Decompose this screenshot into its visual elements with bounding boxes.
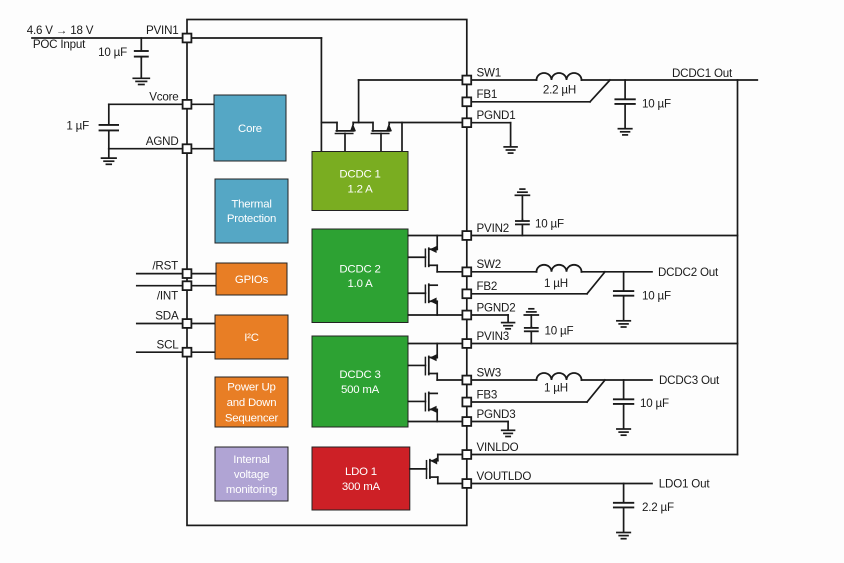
ground for C_ldo [617, 533, 630, 539]
svg-text:FB1: FB1 [477, 88, 498, 101]
wire PGND1 [471, 123, 511, 147]
wire SCL [137, 351, 215, 353]
wire SW1 out [471, 79, 537, 81]
svg-text:FB2: FB2 [477, 280, 498, 293]
wire PGND2 external [471, 315, 508, 322]
ground PGND3 [502, 430, 515, 436]
label L3 value [544, 382, 568, 395]
label /INT [157, 289, 178, 302]
label SW3 [477, 366, 502, 379]
wire PVIN2 to FET [436, 236, 438, 250]
wire DCDC2 out [582, 271, 653, 273]
pin PGND1 [462, 118, 471, 127]
svg-text:SW1: SW1 [477, 66, 502, 79]
wire SW2 out [471, 271, 537, 273]
svg-text:SCL: SCL [157, 339, 180, 352]
pin SW3 [462, 376, 471, 385]
svg-text:Power Up: Power Up [227, 382, 275, 394]
label FB1 [477, 88, 498, 101]
block DCDC 1 [312, 152, 408, 211]
ground for C_vcore [102, 149, 117, 165]
svg-text:AGND: AGND [146, 135, 179, 148]
wire VINLDO internal [438, 454, 464, 456]
wire PVIN1 input [32, 37, 321, 39]
label FB3 [477, 388, 498, 401]
ground for C_pvin2 (inverted) [515, 189, 529, 220]
transistor Q6 low-side DCDC3 [408, 392, 437, 412]
capacitor C_vcore 1 uF [100, 104, 119, 148]
label VOUTLDO [477, 470, 532, 483]
svg-text:10 µF: 10 µF [545, 325, 574, 338]
label VINLDO [477, 441, 519, 454]
wire DCDC1 out [582, 79, 758, 81]
pin AGND [183, 144, 192, 153]
wire PVIN2 external [471, 235, 738, 237]
svg-text:FB3: FB3 [477, 388, 498, 401]
svg-text:10 µF: 10 µF [642, 290, 671, 303]
block I2C [215, 315, 288, 359]
svg-text:2.2 µH: 2.2 µH [543, 84, 576, 97]
svg-text:1 µH: 1 µH [544, 382, 568, 395]
label DCDC2 Out [658, 266, 719, 279]
label C_ldo value [642, 501, 674, 514]
svg-text:PGND3: PGND3 [477, 408, 516, 421]
svg-text:monitoring: monitoring [226, 484, 277, 496]
svg-text:1.2 A: 1.2 A [348, 183, 374, 195]
svg-text:SW3: SW3 [477, 366, 502, 379]
svg-text:1 µF: 1 µF [66, 120, 89, 133]
label PGND2 [477, 301, 516, 314]
capacitor C_out2 10 uF [614, 272, 633, 320]
wire PVIN3 to FET [436, 344, 438, 358]
svg-text:PGND1: PGND1 [477, 109, 516, 122]
svg-text:1 µH: 1 µH [544, 277, 568, 290]
pin VOUTLDO [462, 479, 471, 488]
wire /INT [137, 285, 216, 287]
svg-text:500 mA: 500 mA [341, 384, 380, 396]
svg-text:2.2 µF: 2.2 µF [642, 501, 674, 514]
svg-text:POC Input: POC Input [33, 38, 86, 51]
pin SW1 [462, 76, 471, 85]
label PGND3 [477, 408, 516, 421]
pin PGND3 [462, 417, 471, 426]
label AGND [146, 135, 179, 148]
pin SW2 [462, 267, 471, 276]
wire SW2 node [437, 265, 463, 272]
svg-text:PVIN2: PVIN2 [477, 222, 510, 235]
svg-text:DCDC 1: DCDC 1 [339, 169, 380, 181]
inductor L2 1 uH [537, 265, 582, 272]
label DCDC1 Out [672, 67, 733, 80]
wire PVIN3 external [471, 343, 738, 345]
wire FET to VOUTLDO [437, 477, 439, 483]
capacitor C_in 10 uF [135, 38, 148, 58]
block Thermal Protection [215, 179, 288, 243]
pin FB3 [462, 398, 471, 407]
block Power Up and Down Sequencer [215, 377, 288, 427]
svg-text:GPIOs: GPIOs [235, 274, 269, 286]
ground PGND2 [502, 323, 515, 329]
wire FET to VINLDO [437, 455, 439, 461]
wire PGND3 external [471, 422, 508, 430]
svg-text:PVIN1: PVIN1 [146, 24, 179, 37]
ground for C_in [133, 57, 149, 84]
pin /RST [183, 269, 192, 278]
block LDO 1 [312, 447, 410, 510]
svg-text:DCDC 2: DCDC 2 [339, 263, 380, 275]
input net label [27, 24, 94, 51]
capacitor C_ldo 2.2 uF [614, 484, 633, 532]
pin /INT [183, 281, 192, 290]
pin VINLDO [462, 450, 471, 459]
label SDA [155, 310, 179, 323]
pin PGND2 [462, 311, 471, 320]
transistor Q3 high-side DCDC2 [408, 246, 437, 267]
wire LDO1 out [471, 483, 652, 485]
pin FB1 [462, 97, 471, 106]
svg-text:300 mA: 300 mA [342, 481, 381, 493]
capacitor C_out3 10 uF [614, 380, 633, 428]
label C_in value [98, 46, 127, 59]
label FB2 [477, 280, 498, 293]
svg-text:LDO 1: LDO 1 [345, 466, 377, 478]
label PGND1 [477, 109, 516, 122]
transistor Q2 low-side DCDC1 [371, 123, 392, 152]
wire SW1 node [353, 80, 463, 123]
svg-text:10 µF: 10 µF [640, 397, 669, 410]
svg-text:SW2: SW2 [477, 258, 502, 271]
transistor Q7 LDO pass [410, 458, 438, 479]
svg-text:DCDC2 Out: DCDC2 Out [658, 266, 719, 279]
pin PVIN3 [462, 339, 471, 348]
pin SDA [183, 319, 192, 328]
svg-text:SDA: SDA [155, 310, 179, 323]
wire low-side to PGND1 [389, 122, 463, 124]
svg-text:Protection: Protection [227, 213, 276, 225]
transistor Q1 high-side DCDC1 [335, 123, 356, 152]
pin FB2 [462, 289, 471, 298]
block Internal voltage monitoring [215, 447, 288, 501]
label C_vcore value [66, 120, 89, 133]
svg-text:PVIN3: PVIN3 [477, 330, 510, 343]
svg-text:Vcore: Vcore [149, 91, 178, 104]
svg-text:Core: Core [238, 123, 262, 135]
svg-text:voltage: voltage [234, 469, 269, 481]
ground for C_pvin3 (inverted) [524, 309, 538, 327]
wire FB2 [471, 272, 605, 294]
ground for C_out1 [618, 129, 631, 135]
svg-text:LDO1 Out: LDO1 Out [659, 478, 711, 491]
svg-text:4.6 V → 18 V: 4.6 V → 18 V [27, 24, 94, 37]
svg-text:DCDC1 Out: DCDC1 Out [672, 67, 733, 80]
wire SW3 node [437, 374, 463, 381]
wire AGND [109, 148, 214, 150]
wire /RST [137, 273, 216, 275]
wire junction to DCDC1 block [401, 123, 403, 152]
wire PVIN2 internal [408, 235, 463, 237]
wire PGND2 internal [408, 314, 463, 316]
label PVIN1 [146, 24, 179, 37]
ground for C_out2 [617, 321, 630, 327]
wire VOUTLDO internal [438, 483, 464, 485]
wire Vcore [109, 103, 214, 105]
svg-text:10 µF: 10 µF [535, 218, 564, 231]
wire right bus DCDC1 to VINLDO [737, 80, 739, 455]
svg-text:DCDC 3: DCDC 3 [339, 369, 380, 381]
wire FET to PGND3 [436, 410, 438, 422]
wire FB3 [471, 380, 605, 402]
label L1 value [543, 84, 576, 97]
pin SCL [183, 348, 192, 357]
label /RST [152, 259, 178, 272]
wire PVIN3 internal [408, 343, 463, 345]
label PVIN3 [477, 330, 510, 343]
wire DCDC3 out [582, 379, 653, 381]
label DCDC3 Out [659, 374, 720, 387]
svg-text:DCDC3 Out: DCDC3 Out [659, 374, 720, 387]
label SW1 [477, 66, 502, 79]
inductor L1 2.2 uH [537, 73, 582, 80]
pin PVIN2 [462, 231, 471, 240]
pin Vcore [183, 100, 192, 109]
svg-text:1.0 A: 1.0 A [348, 278, 374, 290]
svg-text:10 µF: 10 µF [98, 46, 127, 59]
wire FB1 [471, 80, 610, 102]
capacitor C_pvin3 10 uF [525, 327, 538, 344]
label L2 value [544, 277, 568, 290]
svg-text:10 µF: 10 µF [642, 98, 671, 111]
wire PGND3 internal [408, 421, 463, 423]
svg-text:I²C: I²C [244, 332, 259, 344]
capacitor C_out1 10 uF [615, 80, 634, 128]
pin PVIN1 [183, 34, 192, 43]
label C_out3 value [640, 397, 669, 410]
block GPIOs [216, 263, 287, 295]
svg-text:/RST: /RST [152, 259, 178, 272]
label PVIN2 [477, 222, 510, 235]
svg-text:VINLDO: VINLDO [477, 441, 519, 454]
label C_out2 value [642, 290, 671, 303]
svg-text:VOUTLDO: VOUTLDO [477, 470, 532, 483]
svg-text:PGND2: PGND2 [477, 301, 516, 314]
transistor Q4 low-side DCDC2 [408, 284, 437, 304]
IC boundary box [187, 20, 467, 526]
transistor Q5 high-side DCDC3 [408, 354, 437, 375]
block DCDC 2 [312, 229, 408, 323]
block Core [214, 95, 286, 161]
wire FET rail left [321, 122, 337, 124]
label SW2 [477, 258, 502, 271]
svg-text:Sequencer: Sequencer [225, 412, 279, 424]
wire VINLDO external [471, 454, 738, 456]
label C_pvin2 value [535, 218, 564, 231]
capacitor C_pvin2 10 uF [516, 220, 529, 236]
label SCL [157, 339, 180, 352]
wire FET to PGND2 [436, 301, 438, 315]
wire PVIN1 to high-side FET [320, 38, 322, 152]
label Vcore [149, 91, 178, 104]
wire SW3 out [471, 379, 537, 381]
label LDO1 Out [659, 478, 711, 491]
svg-text:and Down: and Down [227, 397, 277, 409]
svg-text:/INT: /INT [157, 289, 178, 302]
label C_out1 value [642, 98, 671, 111]
ground PGND1 [504, 147, 517, 153]
svg-text:Thermal: Thermal [231, 199, 271, 211]
wire SDA [137, 323, 215, 325]
inductor L3 1 uH [537, 373, 582, 380]
block DCDC 3 [312, 336, 408, 427]
svg-text:Internal: Internal [233, 454, 269, 466]
label C_pvin3 value [545, 325, 574, 338]
ground for C_out3 [617, 429, 630, 435]
